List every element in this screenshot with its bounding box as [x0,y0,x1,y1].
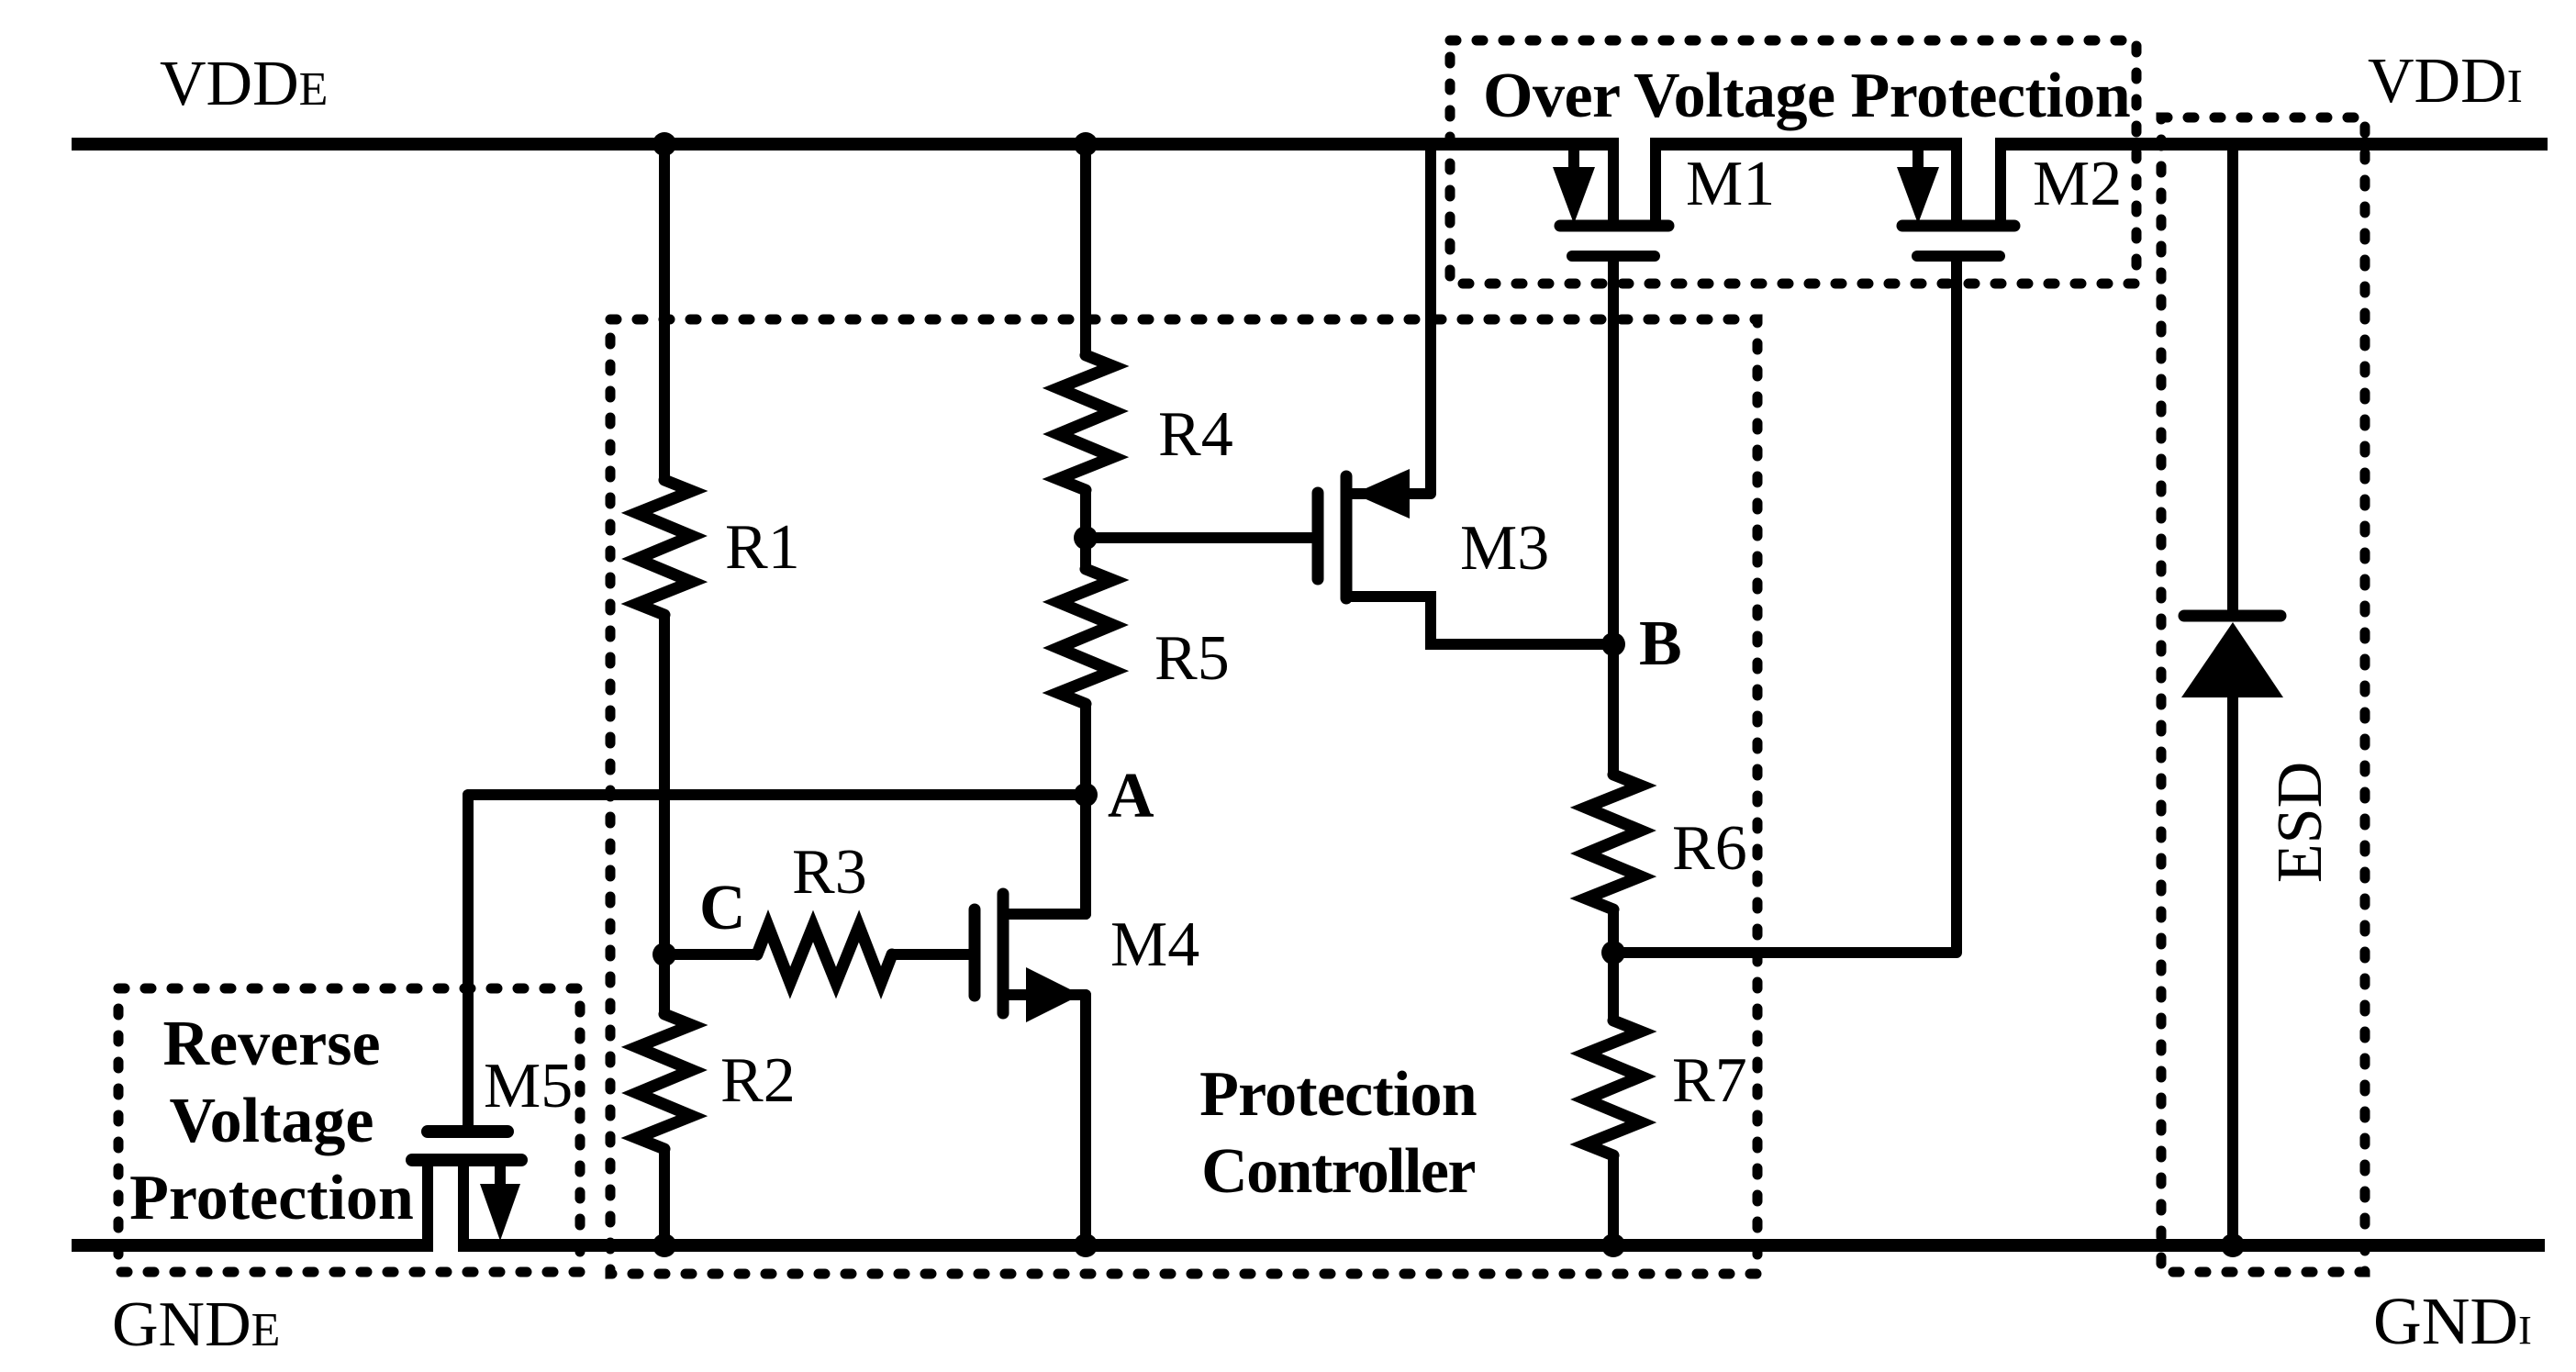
wire R7 to GNDE rail [1608,1155,1619,1245]
resistor R3 [757,926,892,983]
svg-text:A: A [1108,761,1154,831]
wire R3 to M4 gate [892,949,969,960]
wire top rail right segment (to VDDI) [1995,138,2548,151]
svg-text:GNDI: GNDI [2373,1284,2532,1358]
node: R6/R7/M2-gate junction [1601,941,1625,965]
svg-text:Reverse: Reverse [162,1009,380,1079]
resistor R4 [1058,355,1113,490]
node: top rail / R4 branch [1074,132,1098,156]
resistor R6 [1586,775,1641,909]
diode ESD anode triangle (pointing up) [2181,622,2283,697]
svg-text:M1: M1 [1686,149,1775,219]
resistor R7 [1586,1021,1641,1155]
wire R4/R5 node to M3 gate [1086,532,1312,543]
Over Voltage Protection dashed box [1450,40,2136,284]
Reverse Voltage Protection dashed box [118,988,580,1272]
node: R4/R5/M3-gate junction [1074,526,1098,550]
wire top rail middle segment (between M1 and M2) [1650,138,1962,151]
wire R4 to R5 through M3-gate node [1080,490,1091,569]
wire R6 to R6/R7 node [1608,909,1619,1021]
svg-text:M4: M4 [1110,909,1199,980]
node: top rail / R1 branch [652,132,676,156]
svg-text:R3: R3 [792,837,867,908]
transistor M4 channel bar [998,894,1009,1013]
wire M1 gate to node B to R6 [1608,256,1619,775]
node: bottom rail / R2 [652,1233,676,1257]
wire M5 right lead to GNDI-side rail [458,1160,469,1240]
wire VDDE rail to R4 [1080,144,1091,355]
svg-text:Protection: Protection [1199,1059,1477,1130]
transistor M5 gate bar [428,1125,507,1138]
ESD dashed box [2161,117,2365,1272]
svg-text:C: C [699,873,746,943]
svg-text:R5: R5 [1154,623,1230,694]
node: bottom rail / M4 source [1074,1233,1098,1257]
transistor M2 [1897,144,2014,256]
node C [652,943,676,966]
wire VDDE-VDDI top rail left segment [72,138,1619,151]
wire node A to M5 gate [468,789,1086,800]
wire M3 drain lead to node B [1352,597,1613,644]
resistor R1 [637,480,692,615]
svg-text:M3: M3 [1460,513,1549,584]
svg-text:VDDI: VDDI [2368,46,2523,117]
transistor M5 channel bar [412,1154,521,1166]
node: bottom rail / R7 [1601,1233,1625,1257]
svg-text:Voltage: Voltage [170,1086,374,1156]
node A [1074,783,1098,807]
wire VDDI rail to ESD diode cathode [2227,144,2238,610]
transistor M3 source arrow (pointing left) [1354,469,1410,519]
wire M4 drain lead [1009,909,1086,920]
wire GNDE bottom rail left segment [72,1239,433,1252]
svg-text:R7: R7 [1672,1045,1747,1116]
wire M3 source lead to VDDE rail [1352,144,1431,494]
wire M4 source to GNDE rail [1080,995,1091,1245]
transistor M3 gate bar [1312,493,1324,579]
wire node C to R3 [664,949,757,960]
svg-text:Protection: Protection [129,1163,414,1233]
wire ESD diode anode to GNDI rail [2227,697,2238,1245]
svg-text:Controller: Controller [1201,1136,1475,1207]
node B [1601,632,1625,656]
node: bottom rail / ESD diode [2221,1233,2245,1257]
wire M5 left lead to GNDE rail [422,1160,433,1240]
svg-text:B: B [1639,608,1682,679]
wire R6/R7 node to M2 gate lead [1613,256,1957,953]
transistor M4 gate bar [969,909,981,996]
diode ESD cathode bar [2184,610,2280,622]
wire R2 to GNDE rail [659,1149,670,1245]
svg-text:ESD: ESD [2265,762,2336,883]
resistor R2 [637,1014,692,1149]
transistor M5 bulk arrow (pointing down) [495,1160,506,1186]
resistor R5 [1058,569,1113,704]
wire node A wire down to M5 gate [463,795,474,1126]
wire VDDE rail to R1 [659,144,670,480]
svg-text:R4: R4 [1158,399,1233,470]
svg-text:M5: M5 [484,1051,573,1121]
transistor M3 channel bar [1341,476,1353,598]
svg-text:R2: R2 [720,1045,796,1116]
wire R1 to node C [659,615,670,1014]
wire R5 to node A to M4 drain [1080,704,1091,914]
wire M4 source lead [1009,989,1086,1000]
svg-text:M2: M2 [2033,149,2122,219]
svg-text:Over Voltage Protection: Over Voltage Protection [1483,61,2130,131]
transistor M4 source arrow (pointing right) [1026,967,1081,1022]
svg-text:R6: R6 [1672,813,1747,884]
wire bottom rail right segment (to GNDI) [458,1239,2545,1252]
svg-text:R1: R1 [725,512,800,583]
Protection Controller dashed box [610,319,1757,1274]
transistor M1 [1553,144,1668,256]
